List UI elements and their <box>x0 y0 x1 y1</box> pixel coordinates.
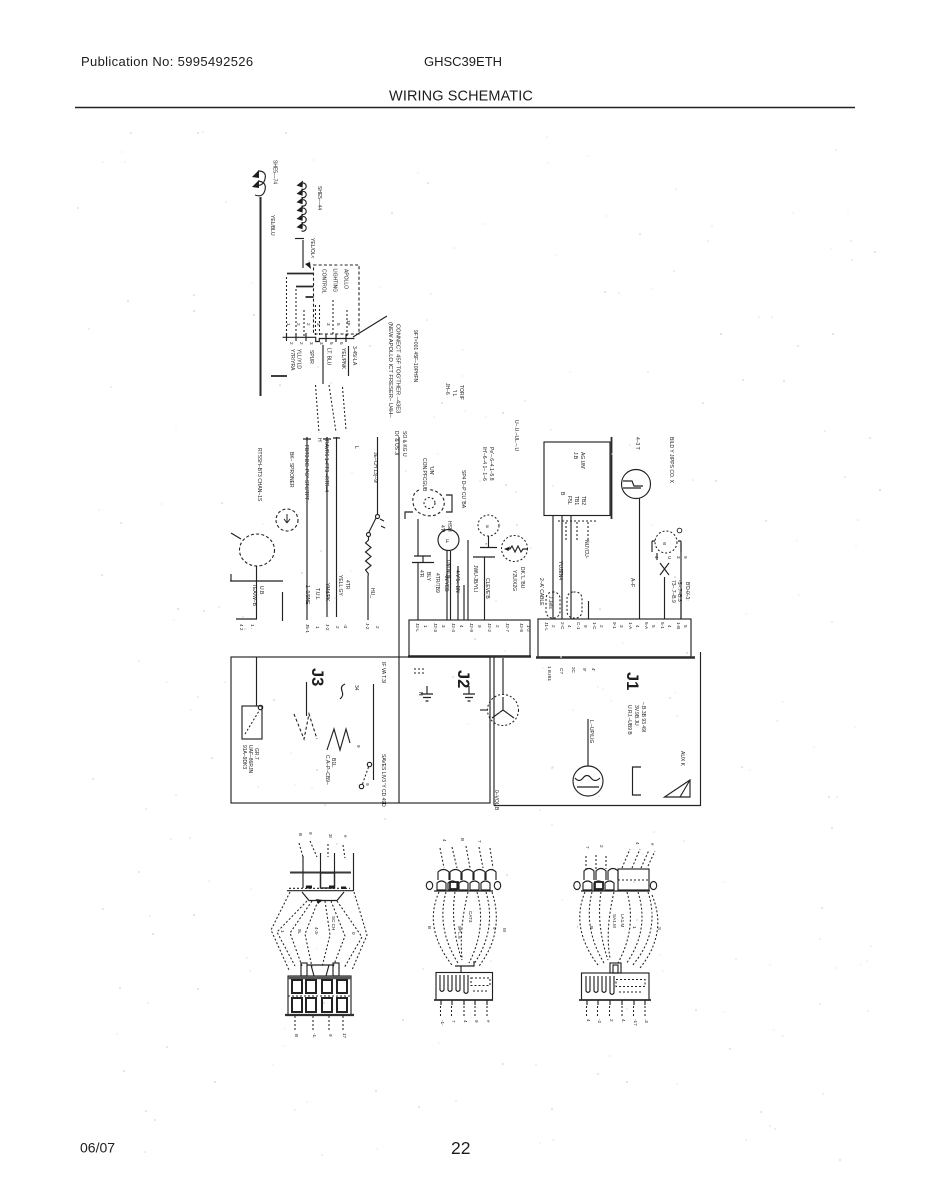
svg-text:9F'L.6: 9F'L.6 <box>457 926 462 939</box>
ground chassis box right <box>494 652 701 806</box>
svg-text:WIRING SCHEMATIC: WIRING SCHEMATIC <box>389 89 533 105</box>
svg-text:B: B <box>589 926 594 929</box>
module text LIGHTING <box>332 269 338 293</box>
svg-text:3: 3 <box>441 625 446 628</box>
harness C plug tab <box>610 963 621 973</box>
svg-text:9': 9' <box>582 668 587 672</box>
svg-text:7: 7 <box>585 846 590 849</box>
svg-text:a: a <box>663 541 666 547</box>
svg-text:UAF–86RJN: UAF–86RJN <box>247 745 253 773</box>
heater label <box>511 570 517 591</box>
bracket symbol <box>633 767 642 795</box>
J1 pin labels row <box>544 622 688 631</box>
svg-text:1: 1 <box>286 323 291 326</box>
svg-text:LIGHTING: LIGHTING <box>332 269 338 293</box>
svg-text:4TR/7B9: 4TR/7B9 <box>434 573 440 593</box>
svg-text:-17: -17 <box>633 1019 638 1026</box>
svg-text:2: 2 <box>335 626 340 629</box>
svg-text:0: 0 <box>351 932 356 935</box>
door switch note line2 <box>633 705 639 726</box>
wire from overload down <box>236 566 257 619</box>
icemaker M5 (dashed circle) <box>652 531 681 553</box>
svg-text:JH–6: JH–6 <box>444 383 450 395</box>
svg-text:9: 9 <box>365 783 370 786</box>
svg-text:7: 7 <box>477 840 482 843</box>
svg-text:LT. BLU: LT. BLU <box>326 348 332 366</box>
R4 label line1 <box>324 755 330 785</box>
svg-text:U–.U.–UL.–.U: U–.U.–UL.–.U <box>513 420 519 452</box>
svg-text:9: 9 <box>683 556 688 559</box>
label 2-way cable <box>538 578 544 606</box>
svg-text:S: S <box>657 927 662 930</box>
svg-text:L: L <box>353 446 359 449</box>
harness B plug tab <box>455 961 474 972</box>
adaptive defrost control U2 <box>544 437 612 519</box>
svg-text:2: 2 <box>299 342 304 345</box>
label J.Jels <box>547 596 553 609</box>
svg-text:3: 3 <box>309 342 314 345</box>
S3 label <box>634 437 640 450</box>
svg-text:RTSSH–BT3 CHAN–1S: RTSSH–BT3 CHAN–1S <box>256 448 262 502</box>
wire label YEL/PNK2 <box>324 583 330 602</box>
svg-text:0–3:: 0–3: <box>684 591 690 601</box>
svg-text:5: 5 <box>336 323 341 326</box>
defrost heater R2 (dashed circle with element) <box>502 536 528 562</box>
wire 458 <box>457 566 459 620</box>
svg-text:4.: 4. <box>621 1019 626 1023</box>
wire label YEL/BLK 2 <box>349 346 358 376</box>
evaporator fan motor M2 (scroll) <box>405 490 452 519</box>
svg-text:J-2: J-2 <box>325 624 330 631</box>
wire 2 <box>326 437 328 617</box>
thermostat squiggle 34 <box>340 684 359 699</box>
svg-text:2-C: 2-C <box>560 622 565 630</box>
header model number <box>424 54 502 69</box>
wire from C2 <box>484 557 486 620</box>
apollo lighting control module U1 (dashed box) <box>314 265 360 334</box>
svg-text:4: 4 <box>635 625 640 628</box>
fan motor M1 (dashed circle with arrow) <box>276 509 298 531</box>
wire icemaker 2 <box>664 577 666 619</box>
svg-text:YELL:GY: YELL:GY <box>337 575 343 597</box>
wire stub lower left <box>271 375 287 377</box>
svg-text:e: e <box>343 835 348 838</box>
svg-text:FDT3 DC: PG^ STC'TPT: FDT3 DC: PG^ STC'TPT <box>303 445 309 500</box>
svg-text:U: U <box>667 556 672 559</box>
harness B middle labels <box>427 911 507 939</box>
svg-text:4'R: 4'R <box>418 570 424 578</box>
svg-text:J1-L: J1-L <box>544 622 549 631</box>
svg-text:J2-9: J2-9 <box>469 623 474 632</box>
wire label WHT/YEL <box>445 560 451 579</box>
svg-text:.3: .3 <box>644 1019 649 1023</box>
section: connector boxes <box>231 601 701 811</box>
svg-text:9: 9 <box>583 625 588 628</box>
wire in J3 box <box>373 684 375 780</box>
svg-text:4: 4 <box>459 625 464 628</box>
svg-text:A–F: A–F <box>629 578 635 587</box>
wire dashed riser 3 <box>303 310 305 336</box>
harness A top leads <box>299 841 345 858</box>
svg-text:HU_: HU_ <box>369 588 375 598</box>
svg-text:J2-3: J2-3 <box>433 623 438 632</box>
svg-text:73–.7–B.9: 73–.7–B.9 <box>670 580 676 603</box>
harness B bottom leads <box>441 1006 488 1018</box>
svg-text:1 B.IB1: 1 B.IB1 <box>547 666 552 682</box>
page title <box>389 89 533 105</box>
svg-text:CLEVE'B: CLEVE'B <box>484 578 490 599</box>
label TIL <box>451 390 457 397</box>
svg-text:Y2U/X2G: Y2U/X2G <box>511 570 517 591</box>
svg-text:22: 22 <box>451 1138 470 1158</box>
svg-text:2–A' CABLE: 2–A' CABLE <box>538 578 544 606</box>
alarm label <box>679 751 685 767</box>
connector J1 pin box <box>536 619 695 658</box>
svg-text:2: 2 <box>599 845 604 848</box>
svg-text:YEL/BLU: YEL/BLU <box>269 215 275 236</box>
pin labels J5 <box>305 624 348 633</box>
ground symbol G1 <box>421 686 433 701</box>
ground symbol G2 <box>463 686 475 701</box>
label L-VOL.B <box>493 790 499 811</box>
condenser fan label 2 <box>428 466 434 475</box>
wire from M3 <box>447 551 451 621</box>
svg-text:9FT=001 45F–10PHFN: 9FT=001 45F–10PHFN <box>412 330 418 382</box>
wire label YEL/GY <box>337 575 343 597</box>
svg-text:-1.: -1. <box>312 1033 317 1038</box>
svg-text:IF VA T.3I: IF VA T.3I <box>380 662 386 683</box>
svg-text:BK– SPRONER: BK– SPRONER <box>288 452 294 488</box>
svg-text:4–3 T: 4–3 T <box>634 437 640 450</box>
label TEA/W-B <box>251 584 257 607</box>
svg-text:4: 4 <box>654 556 659 559</box>
svg-text:J.Jels: J.Jels <box>547 596 553 609</box>
wire label BLK <box>425 572 431 582</box>
svg-text:YUJEN4: YUJEN4 <box>557 561 563 580</box>
label WBR <box>439 525 445 533</box>
wire U2 pin2 <box>561 516 563 620</box>
svg-text:1-A: 1-A <box>628 622 633 630</box>
svg-text:5: 5 <box>651 625 656 628</box>
harness C top labels <box>585 842 655 849</box>
header publication number <box>81 54 253 69</box>
wire icemaker 1 <box>656 553 658 560</box>
svg-text:BILD Y JIPPS CO. X: BILD Y JIPPS CO. X <box>668 437 674 484</box>
svg-text:C?: C? <box>559 668 564 674</box>
svg-text:YEL/PNK: YEL/PNK <box>340 348 346 370</box>
svg-text:5-1: 5-1 <box>660 622 665 629</box>
harness B bottom labels <box>440 1020 491 1026</box>
wire label 468 <box>472 565 478 592</box>
svg-text:34: 34 <box>353 685 359 691</box>
svg-text:9: 9 <box>328 1034 333 1037</box>
wire stub to module pin a <box>287 273 314 275</box>
svg-text:17: 17 <box>342 1033 347 1039</box>
wire label RED-Y <box>684 582 690 596</box>
svg-text:3: 3 <box>619 625 624 628</box>
svg-text:IH'–6–4 1– 1–6: IH'–6–4 1– 1–6 <box>481 447 487 481</box>
pin tick labels <box>654 556 688 559</box>
U2 text TB1 <box>573 496 579 505</box>
svg-text:H: H <box>316 438 322 442</box>
wire label CLEVE <box>484 578 490 599</box>
icemaker aux circle <box>677 528 682 533</box>
J2 pin labels row <box>415 623 531 632</box>
wire dashed riser 2 <box>295 289 297 336</box>
ground chassis box left <box>231 657 490 803</box>
svg-text:2: 2 <box>599 625 604 628</box>
wire label DK-GRN <box>519 567 525 589</box>
svg-text:4: 4 <box>667 625 672 628</box>
svg-text:1: 1 <box>280 930 285 933</box>
harness A top labels <box>298 832 348 839</box>
wire label RD-WH3 <box>676 580 682 602</box>
svg-text:SPUR: SPUR <box>308 350 314 364</box>
module text APOLLO <box>343 269 349 289</box>
svg-text:J2-L: J2-L <box>415 623 420 632</box>
wire label YEL/PNK <box>340 348 346 370</box>
svg-text:DI' & US JI: DI' & US JI <box>393 431 399 455</box>
label U-UL <box>513 420 519 452</box>
cable capsule 2 (dashed) <box>567 592 582 618</box>
wire from S3 <box>639 499 641 620</box>
defrost thermostat S2 <box>367 437 386 537</box>
wire YEL/BLU vertical bus <box>260 197 262 396</box>
harness B header P4 <box>426 870 500 892</box>
svg-text:CAT3: CAT3 <box>468 911 473 923</box>
svg-text:Pe'–.6–4.1–5.8: Pe'–.6–4.1–5.8 <box>488 447 494 481</box>
freezer door switch S3 <box>622 470 651 499</box>
title rule <box>75 107 855 109</box>
wire label T.U.L <box>314 588 320 600</box>
wire fresh food light switch <box>306 437 308 620</box>
S4 label line3 <box>253 748 259 760</box>
svg-text:J2: J2 <box>454 670 472 688</box>
svg-text:T.U.L: T.U.L <box>314 588 320 600</box>
R4 label line2 <box>330 758 336 768</box>
wire stub to module pin b <box>296 286 314 288</box>
label saves <box>380 754 386 807</box>
capacitor plate bar <box>230 574 283 581</box>
connector label J2 <box>454 670 472 688</box>
icemaker label <box>668 437 674 484</box>
harness C bottom leads <box>587 1006 646 1017</box>
svg-text:B: B <box>298 833 303 836</box>
wire label RD-WH9 <box>670 580 676 603</box>
wire stub to module pin c <box>306 296 314 298</box>
harness A wire fan <box>271 892 367 970</box>
svg-text:CON.PFCGUB: CON.PFCGUB <box>421 458 427 492</box>
svg-text:3: 3 <box>326 323 331 326</box>
svg-text:C.A–P–CB9–: C.A–P–CB9– <box>324 755 330 785</box>
svg-text:2: 2 <box>296 323 301 326</box>
svg-text:CONNECT 45F TOG'THER –43E3: CONNECT 45F TOG'THER –43E3 <box>395 324 401 413</box>
connector pins P1 (5 pin arrows) <box>297 181 307 232</box>
section: bottom harness connectors <box>271 832 662 1039</box>
svg-text:5-A: 5-A <box>644 622 649 630</box>
svg-text:M: M <box>502 928 507 932</box>
svg-text:'I L: 'I L <box>451 390 457 397</box>
wire label DR and US <box>393 431 399 455</box>
wire label YEL/BLU <box>269 215 275 236</box>
harness A header P2 <box>287 853 354 891</box>
svg-text:J1: J1 <box>623 672 641 690</box>
svg-text:4: 4 <box>442 839 447 842</box>
svg-text:06/07: 06/07 <box>80 1140 115 1156</box>
svg-text:3-45/-LA: 3-45/-LA <box>351 346 357 366</box>
wire label LT BLU <box>323 345 332 384</box>
svg-text:TORIF: TORIF <box>458 385 464 400</box>
harness B plug body P5 <box>434 973 493 1006</box>
section: mid left wiring <box>230 431 407 803</box>
overload protector OL1 (dashed ellipse) <box>231 533 275 566</box>
sheet reference label <box>272 160 278 184</box>
svg-text:YEL/OL<: YEL/OL< <box>309 238 315 259</box>
note attached to chassis <box>256 448 262 502</box>
svg-text:JE–CH 13)–9!: JE–CH 13)–9! <box>372 452 378 483</box>
label ATR/BRN <box>434 573 440 593</box>
U2 text TB2 <box>580 496 586 505</box>
harness B wire fan <box>433 892 496 966</box>
connector dashes under U2 <box>558 521 598 541</box>
label L <box>353 446 359 449</box>
svg-text:'UN': 'UN' <box>428 466 434 475</box>
svg-text:CONTROL: CONTROL <box>321 269 327 294</box>
svg-text:TB2: TB2 <box>580 496 586 505</box>
svg-text:NU'/CU-: NU'/CU- <box>583 540 589 559</box>
wire label SO and KG <box>401 431 407 457</box>
svg-text:4.V'1-. BN: 4.V'1-. BN <box>454 570 460 593</box>
svg-text:1: 1 <box>315 626 320 629</box>
svg-text:2: 2 <box>375 626 380 629</box>
footer date <box>80 1140 115 1156</box>
J1 inner pin numbers <box>547 666 596 682</box>
svg-text:DK.'L.'BU: DK.'L.'BU <box>519 567 525 589</box>
harness A plug tabs <box>301 963 339 976</box>
svg-text:SO & KG U: SO & KG U <box>401 431 407 457</box>
lamp wire <box>587 719 589 766</box>
svg-text:e: e <box>650 843 655 846</box>
svg-text:F5L: F5L <box>566 496 572 505</box>
svg-text:4: 4 <box>567 625 572 628</box>
svg-text:YMd/PK: YMd/PK <box>324 583 330 602</box>
door switch note line1 <box>626 705 632 735</box>
svg-text:-IN'YEB: -IN'YEB <box>443 574 449 592</box>
pin labels J4 <box>239 624 255 631</box>
note text connect <box>395 324 401 413</box>
svg-text:-2: -2 <box>597 1019 602 1024</box>
run capacitor C1 <box>412 519 434 563</box>
label U.B <box>258 586 264 595</box>
svg-text:91A–9DK3: 91A–9DK3 <box>241 745 247 769</box>
U2 text ADC <box>572 452 578 460</box>
label HSH <box>446 521 452 532</box>
svg-text:B1L.: B1L. <box>330 758 336 768</box>
svg-text:9L: 9L <box>297 929 302 935</box>
svg-text:J-2: J-2 <box>365 623 370 630</box>
harness A middle labels <box>280 916 356 936</box>
svg-text:Y7R/YRA: Y7R/YRA <box>289 349 295 371</box>
wire icemaker 3 <box>680 543 682 619</box>
svg-text:F: F <box>446 539 449 545</box>
harness C wire fan <box>580 892 658 968</box>
cable capsule 1 (dashed) <box>546 592 560 618</box>
svg-text:-: - <box>575 926 580 928</box>
wire to lid switch <box>256 657 258 706</box>
defrost thermostat label <box>372 452 378 483</box>
connector J4 pin strip line <box>283 300 355 342</box>
S4 label line2 <box>247 745 253 773</box>
label TORIF <box>458 385 464 400</box>
harness A bottom leads <box>295 1016 343 1030</box>
wire label NU <box>583 540 589 559</box>
wire label 4TR <box>344 580 350 590</box>
wire yel/blk drop <box>282 592 284 621</box>
svg-text:7: 7 <box>451 1020 456 1023</box>
note text def <box>412 330 418 382</box>
wire label BRN <box>443 574 449 592</box>
label JH-6 <box>444 383 450 395</box>
label Pe-6-4 <box>488 447 494 481</box>
compressor motor M6 <box>480 695 519 726</box>
section: mid center motors <box>405 383 528 620</box>
svg-text:U.RJ.–UB9 B: U.RJ.–UB9 B <box>626 705 632 735</box>
svg-text:YLL/YLD: YLL/YLD <box>296 349 302 369</box>
svg-text:5: 5 <box>683 625 688 628</box>
svg-text:BLY: BLY <box>425 572 431 582</box>
wire label WHT/BLK458 <box>454 570 460 593</box>
svg-text:Publication No: 5995492526: Publication No: 5995492526 <box>81 54 253 69</box>
svg-text:2: 2 <box>551 625 556 628</box>
sheet reference label 2 <box>316 186 322 210</box>
wire top hooks <box>303 437 340 441</box>
svg-text:J5-1: J5-1 <box>305 624 310 633</box>
lamp wire label <box>588 720 594 743</box>
harness C top leads <box>586 849 655 869</box>
svg-text:SA1.M: SA1.M <box>612 914 617 928</box>
svg-text:B: B <box>559 492 565 496</box>
svg-text:4': 4' <box>591 668 596 672</box>
note leader line <box>353 316 387 337</box>
wire to J1-7 <box>588 601 590 619</box>
svg-text:4: 4 <box>463 1020 468 1023</box>
svg-text:–.B.3B 93 49I: –.B.3B 93 49I <box>640 702 646 732</box>
U2 text B <box>559 492 565 496</box>
svg-text:4: 4 <box>586 1019 591 1022</box>
wire U2 pin3 <box>570 516 572 620</box>
label 115v <box>380 662 386 683</box>
icemaker X contact <box>660 563 669 575</box>
harness A funnel <box>302 892 344 904</box>
svg-text:*: * <box>483 543 488 545</box>
harness C bottom labels <box>586 1019 649 1026</box>
svg-text:9: 9 <box>356 745 361 748</box>
wire 468 <box>467 540 469 620</box>
lid switch S4 box <box>242 705 263 739</box>
svg-text:B: B <box>427 926 432 929</box>
svg-text:SAVES LIV3 'Y CD 49D: SAVES LIV3 'Y CD 49D <box>380 754 386 807</box>
svg-text:4-3-: 4-3- <box>314 927 319 936</box>
start winding R4 (zigzag) <box>327 729 350 750</box>
svg-text:SC CH: SC CH <box>331 916 336 930</box>
label IH-6-4 <box>481 447 487 481</box>
svg-text:4TR: 4TR <box>344 580 350 590</box>
label 0-3 <box>684 591 690 601</box>
ice and water wire <box>398 437 400 803</box>
svg-text:4: 4 <box>635 842 640 845</box>
run cap contacts <box>356 745 372 789</box>
wire to compressor <box>502 658 504 694</box>
